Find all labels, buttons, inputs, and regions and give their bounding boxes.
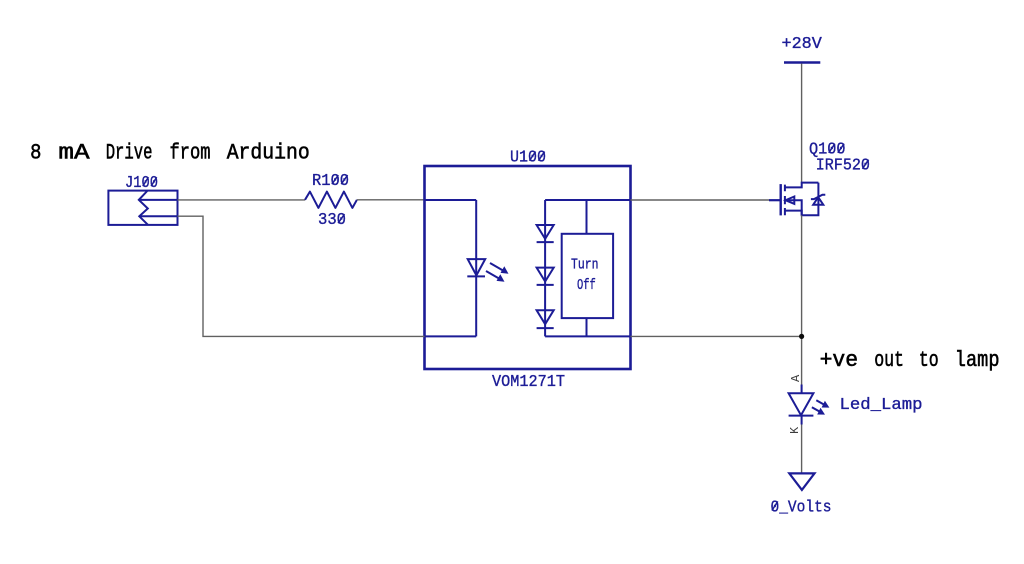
wire +28V to Q100 drain — [801, 64, 803, 183]
transistor Q100 MOSFET — [769, 183, 818, 216]
U100 input LED — [467, 259, 485, 276]
label R100 — [312, 171, 349, 190]
wire J100 pin1 to R100 — [178, 199, 306, 201]
pin label A — [789, 374, 803, 382]
svg-text:K: K — [788, 426, 802, 434]
label Turn — [571, 256, 599, 273]
wire Led_Lamp to ground — [801, 425, 803, 474]
svg-text:Turn: Turn — [571, 256, 599, 273]
annotation text: 8 mA Drive from Arduino — [30, 141, 310, 166]
U100 top internal line — [545, 200, 630, 234]
label VOM1271T — [492, 372, 565, 391]
svg-text:330: 330 — [318, 210, 346, 229]
LED Led_Lamp — [789, 385, 814, 425]
U100 input pin lines — [425, 200, 477, 336]
svg-text:from: from — [170, 141, 211, 166]
svg-text:0_Volts: 0_Volts — [771, 497, 832, 516]
resistor R100 — [305, 192, 357, 208]
svg-text:Arduino: Arduino — [227, 141, 310, 166]
svg-text:+28V: +28V — [782, 34, 823, 53]
svg-text:Off: Off — [577, 277, 596, 294]
wire U100 output to Q100 gate — [631, 199, 770, 201]
svg-text:lamp: lamp — [955, 348, 1000, 373]
value 330 — [318, 210, 346, 229]
Led_Lamp emission arrows — [812, 400, 830, 414]
svg-text:to: to — [919, 348, 939, 373]
power +28V symbol — [784, 61, 820, 64]
connector J100 — [108, 191, 177, 225]
svg-text:A: A — [789, 374, 803, 382]
label J100 — [125, 173, 158, 192]
pin label K — [788, 426, 802, 434]
label IRF520 — [816, 156, 870, 175]
wire U100 bottom to junction — [631, 335, 802, 337]
svg-text:IRF520: IRF520 — [816, 156, 870, 175]
wire Q100 source down to lamp node — [801, 215, 803, 384]
Q100 body diode — [811, 195, 825, 205]
svg-text:out: out — [874, 348, 904, 373]
U100 bottom internal line — [545, 318, 630, 336]
label U100 — [510, 148, 546, 167]
svg-text:Drive: Drive — [106, 141, 153, 166]
svg-text:Led_Lamp: Led_Lamp — [840, 395, 923, 414]
turn-off circuit box — [562, 234, 613, 318]
wire R100 to U100 — [357, 199, 425, 201]
photodiode D3 — [537, 310, 554, 328]
label Off — [577, 277, 596, 294]
optocoupler U100 outer box — [425, 166, 631, 369]
svg-text:+ve: +ve — [820, 348, 859, 373]
U100 photodiode stack line — [544, 200, 546, 336]
U100 LED emission arrows — [486, 263, 509, 282]
label +28V — [782, 34, 823, 53]
svg-text:mA: mA — [58, 141, 90, 166]
label Led_Lamp — [840, 395, 923, 414]
wire J100 pin2 down and along bottom — [178, 216, 425, 336]
photodiode D2 — [537, 268, 554, 285]
annotation text: +ve out to lamp — [820, 348, 1000, 373]
label Q100 — [809, 140, 846, 159]
label 0_Volts — [771, 497, 832, 516]
svg-text:8: 8 — [30, 141, 41, 166]
ground symbol 0_Volts — [789, 473, 814, 490]
junction node +ve out — [799, 334, 804, 339]
photodiode D1 — [537, 225, 554, 242]
svg-text:VOM1271T: VOM1271T — [492, 372, 565, 391]
